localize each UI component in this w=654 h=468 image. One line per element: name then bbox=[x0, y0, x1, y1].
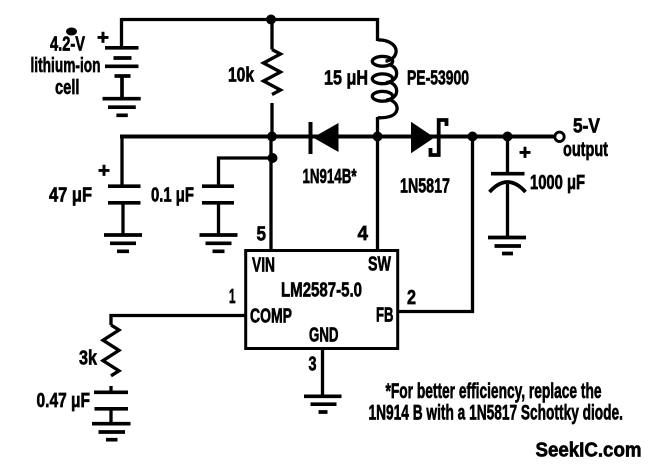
battery BT1 plate long top bbox=[105, 46, 139, 50]
svg-text:5: 5 bbox=[257, 224, 267, 246]
wire COMP pin 1 bbox=[111, 316, 245, 326]
svg-text:0.47 μF: 0.47 μF bbox=[37, 390, 91, 412]
svg-text:1N914B*: 1N914B* bbox=[303, 166, 357, 188]
wire 47uF bottom stem bbox=[121, 205, 124, 236]
wire VIN drop pin 5 bbox=[269, 137, 272, 251]
wire 0.47uF bottom stem bbox=[109, 411, 112, 424]
battery BT1 plate long 2 bbox=[105, 64, 139, 68]
svg-text:1: 1 bbox=[229, 286, 236, 308]
resistor R1 10k bbox=[264, 50, 281, 95]
svg-text:1N5817: 1N5817 bbox=[400, 176, 450, 198]
capacitor C3 1000uF top plate bbox=[491, 172, 525, 176]
wire main output rail bbox=[120, 135, 554, 139]
inductor L1 loop 2 bbox=[372, 74, 392, 84]
wire top rail bbox=[121, 18, 378, 21]
inductor L1 arc 2-3 bbox=[386, 82, 397, 100]
svg-text:+: + bbox=[98, 160, 110, 182]
ground 0.1uF bbox=[200, 235, 238, 251]
inductor L1 entry arc bbox=[378, 40, 396, 61]
diode D1 1N914B bar bbox=[309, 122, 313, 154]
svg-text:0.1 μF: 0.1 μF bbox=[151, 185, 194, 207]
battery BT1 plate short 2 bbox=[115, 74, 131, 78]
diode D2 1N5817 triangle bbox=[411, 122, 435, 153]
node junction top rail / 10k bbox=[266, 15, 276, 25]
svg-text:PE-53900: PE-53900 bbox=[407, 68, 469, 90]
wire 10k bottom lead bbox=[270, 103, 273, 137]
node junction rail / 1000uF bbox=[503, 132, 513, 142]
svg-text:3k: 3k bbox=[79, 348, 98, 370]
svg-text:4: 4 bbox=[358, 223, 369, 245]
svg-text:*For better efficiency, replac: *For better efficiency, replace the bbox=[386, 380, 602, 403]
node junction rail / 10k bottom bbox=[267, 132, 277, 142]
node junction rail / FB bbox=[468, 132, 478, 142]
node junction VIN / 0.1uF bbox=[268, 153, 278, 163]
svg-text:VIN: VIN bbox=[252, 255, 275, 277]
wire inductor bottom lead / SW drop pin 4 bbox=[376, 117, 379, 251]
svg-text:output: output bbox=[563, 139, 608, 161]
svg-text:1000 μF: 1000 μF bbox=[530, 172, 585, 194]
svg-text:lithium-ion: lithium-ion bbox=[31, 55, 101, 77]
wire 0.1uF bottom stem bbox=[217, 205, 220, 236]
wire 47uF drop from rail left end bbox=[120, 135, 123, 185]
wire 0.1uF link to VIN node bbox=[219, 158, 273, 185]
inductor L1 loop 1 bbox=[372, 56, 392, 66]
svg-text:47 μF: 47 μF bbox=[49, 185, 92, 207]
ground 0.47uF bbox=[92, 424, 131, 440]
inductor L1 arc 1-2 bbox=[386, 65, 397, 83]
svg-text:4.2-V: 4.2-V bbox=[50, 34, 85, 56]
battery BT1 plate short bbox=[114, 56, 132, 60]
wire FB riser pin 2 bbox=[399, 137, 473, 312]
svg-text:GND: GND bbox=[309, 325, 339, 347]
ground 47uF bbox=[104, 235, 142, 251]
wire battery top lead bbox=[120, 18, 123, 46]
capacitor C1 47uF plates bbox=[108, 186, 141, 203]
resistor R2 3k bbox=[103, 325, 119, 376]
capacitor C2 0.1uF plates bbox=[202, 186, 234, 203]
wire 10k top lead bbox=[270, 20, 273, 50]
svg-text:+: + bbox=[97, 27, 109, 49]
svg-text:2: 2 bbox=[407, 287, 416, 309]
wire top rail corner down to inductor bbox=[376, 18, 379, 41]
capacitor C3 1000uF curved plate bbox=[490, 182, 526, 192]
svg-text:cell: cell bbox=[55, 77, 80, 99]
svg-text:COMP: COMP bbox=[250, 306, 292, 328]
svg-text:10k: 10k bbox=[228, 65, 255, 87]
wire 1000uF bottom stem bbox=[506, 184, 509, 237]
ink smudge above 4.2-V bbox=[66, 28, 77, 36]
node output terminal circle bbox=[555, 132, 564, 141]
svg-text:5-V: 5-V bbox=[573, 116, 601, 138]
ground battery bbox=[103, 99, 141, 116]
wire 1000uF drop bbox=[506, 137, 509, 173]
svg-text:SW: SW bbox=[368, 254, 391, 276]
node junction rail / inductor-SW bbox=[373, 132, 383, 142]
wire GND pin 3 bbox=[321, 349, 324, 395]
inductor L1 exit arc bbox=[378, 100, 397, 118]
svg-text:+: + bbox=[519, 142, 531, 164]
capacitor C4 0.47uF plates bbox=[94, 392, 128, 409]
ground 1000uF bbox=[488, 238, 526, 254]
ground IC pin3 bbox=[304, 396, 342, 412]
svg-text:FB: FB bbox=[376, 305, 394, 327]
svg-text:1N914 B with a 1N5817 Schottky: 1N914 B with a 1N5817 Schottky diode. bbox=[369, 402, 624, 425]
svg-text:SeekIC.com: SeekIC.com bbox=[536, 439, 642, 462]
diode D1 1N914B triangle bbox=[313, 123, 339, 152]
wire 3k bottom lead bbox=[109, 386, 112, 391]
inductor L1 loop 3 bbox=[372, 91, 392, 101]
svg-text:3: 3 bbox=[309, 354, 317, 376]
svg-text:LM2587-5.0: LM2587-5.0 bbox=[281, 280, 362, 302]
diode D2 1N5817 schottky bar bbox=[431, 120, 447, 155]
IC U1 LM2587-5.0 box bbox=[246, 251, 398, 349]
svg-text:15 μH: 15 μH bbox=[324, 68, 368, 90]
wire battery bottom stem bbox=[120, 76, 124, 97]
